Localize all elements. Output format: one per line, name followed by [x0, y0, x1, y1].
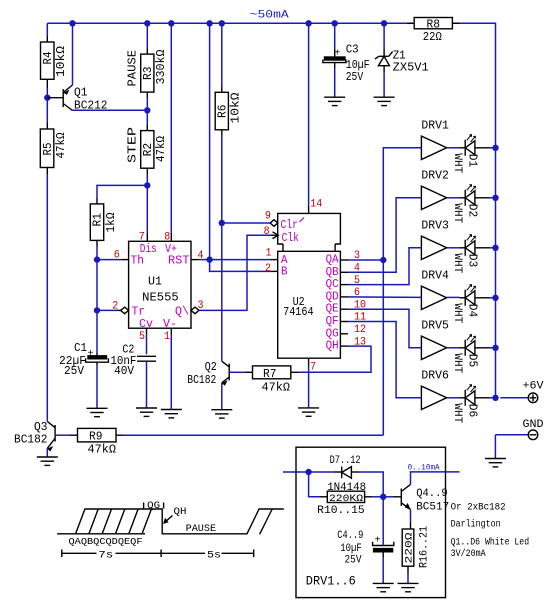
svg-text:47kΩ: 47kΩ: [55, 132, 68, 158]
svg-text:10µF: 10µF: [340, 543, 362, 555]
resistor R16..21 220ohm: [402, 522, 414, 574]
pin stub Tr: [117, 309, 121, 311]
junction dot rail RST: [206, 20, 212, 26]
junction dot rail C3: [332, 20, 338, 26]
svg-text:C4..9: C4..9: [337, 530, 363, 542]
wire QE to DRV5: [348, 309, 421, 348]
wire pin7 to ground: [308, 366, 310, 408]
wire QD to DRV4: [348, 296, 421, 299]
svg-text:QB: QB: [326, 266, 339, 279]
svg-text:NE555: NE555: [142, 291, 179, 305]
svg-text:STEP: STEP: [126, 127, 139, 163]
wire QA node up to DRV1: [383, 148, 421, 260]
svg-text:RST: RST: [168, 255, 190, 268]
svg-text:1: 1: [266, 247, 272, 259]
diode D7..12: [333, 467, 360, 479]
svg-text:D6: D6: [466, 404, 480, 418]
wire R1 top: [97, 185, 147, 198]
LED D3: [460, 235, 490, 256]
svg-text:Q\: Q\: [175, 305, 189, 318]
svg-text:+: +: [334, 49, 340, 60]
wire LED D1 to rail: [490, 147, 496, 149]
svg-text:0..10mA: 0..10mA: [408, 462, 441, 472]
wire Q2 emitter to ground: [221, 383, 223, 410]
driver DRV5: [421, 320, 449, 360]
transistor Q2: [222, 361, 229, 383]
ground Q2: [211, 410, 232, 418]
tick QG left: [143, 503, 145, 509]
LED D2: [460, 185, 490, 206]
transistor Q1: [47, 85, 72, 111]
svg-text:25V: 25V: [64, 365, 84, 378]
wire pin14 rail down: [308, 23, 310, 206]
junction dot rail D5: [492, 345, 498, 351]
Q4 emitter arrow: [405, 503, 411, 510]
wire LED D4 to rail: [490, 297, 496, 299]
wire base node to Q4: [383, 496, 393, 498]
wire diode to base node: [360, 472, 384, 497]
wire node to R2: [146, 110, 148, 124]
subcircuit box DRV1..6: [296, 447, 446, 597]
svg-text:D3: D3: [466, 254, 480, 267]
wire R7 to QH: [299, 346, 371, 372]
svg-text:Th: Th: [131, 255, 145, 268]
wire node to U2 pin B: [210, 260, 271, 272]
svg-text:QH: QH: [174, 506, 187, 518]
svg-text:DRV2: DRV2: [421, 170, 449, 183]
pin stub Th: [122, 259, 129, 261]
wire V+ rail down: [170, 23, 172, 233]
wire rail right of R8: [452, 23, 495, 398]
junction dot input: [305, 469, 311, 475]
svg-text:D5: D5: [466, 354, 480, 368]
pin stub QE: [340, 308, 348, 310]
junction dot rail D3: [492, 245, 498, 251]
pin stub U1 pin7 Dis: [146, 234, 148, 242]
svg-text:Or 2xBc182: Or 2xBc182: [451, 503, 506, 514]
svg-text:WHT: WHT: [451, 303, 463, 323]
junction dot QA: [380, 257, 386, 263]
svg-text:DRV4: DRV4: [421, 270, 449, 283]
pin stub V- pin1: [170, 328, 172, 334]
wire DRV1 output: [447, 147, 460, 149]
wire node to R5: [46, 98, 48, 123]
wire Clr node down to Q2: [221, 223, 223, 361]
clock mark Clk: [273, 232, 279, 239]
wire Q2 base: [229, 371, 245, 373]
driver DRV1: [421, 120, 449, 160]
svg-text:Tr: Tr: [132, 305, 146, 318]
svg-text:2: 2: [112, 301, 118, 313]
svg-text:R9: R9: [89, 431, 103, 444]
capacitor C1: [86, 353, 109, 365]
ground Q3: [37, 457, 58, 465]
wire LED D5 to rail: [490, 347, 496, 349]
ground C2: [136, 408, 157, 416]
junction dot Th: [94, 256, 100, 262]
Q1 emitter arrow: [64, 90, 70, 95]
wire Cv to C2: [146, 334, 148, 354]
pin stub Cv pin5: [146, 328, 148, 334]
pin stub U1 pin8 V+: [170, 234, 172, 242]
svg-text:R10..15: R10..15: [317, 505, 365, 517]
svg-text:1: 1: [164, 331, 170, 343]
ground GND terminal: [485, 459, 506, 467]
svg-text:DRV1: DRV1: [421, 120, 449, 133]
wire node down to U1 Dis pin7: [146, 185, 148, 233]
wire Tr node down to C1: [96, 310, 98, 353]
resistor R7: [253, 366, 299, 379]
svg-text:13: 13: [354, 336, 366, 348]
svg-text:R7: R7: [263, 368, 277, 381]
svg-text:B: B: [281, 266, 288, 279]
LED D5: [460, 335, 490, 356]
svg-text:10kΩ: 10kΩ: [230, 92, 243, 123]
svg-text:Q1..D6 White Led: Q1..D6 White Led: [451, 537, 529, 549]
driver DRV3: [421, 220, 449, 260]
wire Tr: [97, 309, 117, 311]
wire DRV5 output: [447, 347, 460, 349]
wire C3 rail down: [334, 23, 336, 49]
pin stub QF: [340, 321, 348, 323]
wire R4 bottom to node: [46, 88, 48, 98]
wire QF to DRV6: [348, 322, 421, 398]
svg-text:QF: QF: [326, 315, 339, 328]
wire RST to A/B node: [199, 259, 210, 261]
svg-text:DRV5: DRV5: [421, 320, 449, 333]
svg-text:Q1: Q1: [74, 86, 88, 99]
svg-text:U1: U1: [148, 275, 162, 289]
capacitor C4..9: [373, 542, 394, 557]
svg-text:R2: R2: [142, 143, 155, 157]
svg-text:Q4..9: Q4..9: [416, 488, 448, 500]
zener Z1: [375, 48, 393, 73]
svg-text:BC212: BC212: [74, 99, 108, 112]
wire C4 to ground: [382, 557, 384, 583]
junction dot R3/R2/Q1: [144, 107, 150, 113]
driver DRV4: [421, 270, 449, 310]
svg-text:D2: D2: [466, 204, 480, 218]
svg-text:C1: C1: [74, 342, 87, 355]
resistor R8: [407, 18, 460, 29]
pin stub A: [270, 259, 277, 261]
resistor R5: [40, 123, 54, 175]
wire R1 bottom to Th node: [96, 247, 98, 260]
svg-text:D1: D1: [466, 154, 480, 168]
svg-text:9: 9: [265, 211, 271, 223]
wire C2 to ground: [146, 361, 148, 408]
wire input stub into box: [283, 471, 333, 473]
resistor R10..15 220K: [320, 491, 373, 502]
wire Q4 collector up and out: [411, 472, 460, 485]
wire rail down to RST node: [209, 23, 211, 259]
svg-text:74164: 74164: [283, 305, 314, 319]
transistor Q3: [47, 421, 55, 448]
pin 7 stub: [308, 358, 310, 366]
svg-text:R16..21: R16..21: [419, 526, 431, 568]
junction dot rail R3: [144, 20, 150, 26]
svg-text:25V: 25V: [345, 555, 362, 567]
wire Q\ to Clk: [199, 235, 270, 310]
svg-text:+6V: +6V: [523, 381, 544, 393]
svg-text:7: 7: [139, 232, 145, 244]
LED D4: [460, 285, 490, 306]
svg-text:BC182: BC182: [14, 433, 48, 446]
junction dot rail R6: [219, 20, 225, 26]
svg-text:WHT: WHT: [451, 153, 463, 173]
ground C1: [87, 408, 108, 416]
Q2 emitter arrow: [222, 380, 228, 385]
junction dot R4/R5/Q1: [44, 95, 50, 101]
svg-text:C3: C3: [346, 43, 359, 56]
resistor R1: [90, 198, 103, 247]
LED D6: [460, 385, 490, 406]
wire R6 bottom to Clr node: [221, 136, 223, 224]
wire GND terminal down: [494, 435, 496, 459]
terminal GND: [495, 419, 544, 440]
svg-text:R6: R6: [216, 104, 229, 118]
svg-text:7s: 7s: [98, 549, 113, 561]
svg-text:QAQBQCQDQEQF: QAQBQCQDQEQF: [69, 536, 143, 547]
svg-text:R3: R3: [142, 66, 155, 80]
wire C1 to ground: [96, 365, 98, 408]
wire R16 to ground: [407, 574, 409, 584]
wire left rail to R4: [46, 23, 48, 36]
wire Clr node to pin9: [222, 222, 270, 224]
wire 220K to base node: [372, 496, 383, 498]
svg-text:D7..12: D7..12: [330, 455, 361, 467]
pin stub QC: [340, 284, 348, 286]
svg-text:Z1: Z1: [393, 49, 406, 62]
capacitor C3: [323, 49, 346, 68]
svg-text:47kΩ: 47kΩ: [88, 444, 117, 457]
wire C3 to ground: [334, 68, 336, 97]
svg-text:7: 7: [310, 361, 316, 373]
junction dot rail Z1: [381, 20, 387, 26]
waveform baseline left: [57, 509, 284, 534]
svg-text:5: 5: [139, 331, 145, 343]
bubble Q\ pin3: [191, 307, 199, 314]
svg-text:12: 12: [354, 324, 366, 336]
dimension line 7s 5s: [62, 550, 254, 558]
svg-text:GND: GND: [523, 419, 544, 431]
svg-text:Darlington: Darlington: [451, 519, 501, 531]
ground C4: [373, 583, 394, 591]
wire DRV3 output: [447, 247, 460, 249]
svg-text:Clk: Clk: [282, 232, 300, 245]
wire rail to R3: [146, 23, 148, 48]
wire node to U2 pin A: [210, 259, 271, 261]
pin stub Clk: [270, 234, 277, 236]
svg-text:10kΩ: 10kΩ: [55, 46, 68, 77]
junction dot base node: [380, 494, 386, 500]
svg-text:WHT: WHT: [451, 353, 463, 373]
junction dot rail D4: [492, 295, 498, 301]
tick Clr apostrophe: [300, 218, 305, 223]
svg-text:3V/20mA: 3V/20mA: [451, 548, 486, 560]
svg-text:25V: 25V: [346, 71, 364, 84]
svg-text:R5: R5: [42, 142, 55, 155]
Q3 emitter arrow: [47, 446, 53, 451]
resistor R9: [70, 428, 124, 442]
wire LED D6 to rail: [490, 397, 496, 399]
junction dot rail D1: [492, 145, 498, 151]
pin stub QG nc: [340, 333, 348, 335]
svg-text:5s: 5s: [207, 549, 221, 561]
driver DRV2: [421, 170, 449, 210]
svg-text:6: 6: [114, 250, 120, 262]
svg-text:+: +: [375, 536, 381, 547]
wire V- to ground: [170, 334, 172, 410]
resistor R4: [41, 36, 55, 92]
junction dot rail V+: [168, 20, 174, 26]
svg-text:40V: 40V: [114, 365, 134, 378]
junction dot Q1 rail: [69, 20, 75, 26]
transistor Q4..9: [394, 484, 411, 509]
wire QC to DRV3: [348, 248, 421, 285]
svg-text:R4: R4: [42, 51, 55, 64]
op-amp U1 box NE555: [129, 241, 191, 328]
svg-text:V-: V-: [163, 318, 177, 331]
wire Z1 to ground: [383, 73, 385, 97]
svg-text:WHT: WHT: [451, 253, 463, 273]
svg-text:QH: QH: [326, 340, 339, 353]
wire DRV6 output: [447, 397, 460, 399]
svg-text:PAUSE: PAUSE: [126, 50, 139, 87]
svg-text:8: 8: [164, 232, 170, 244]
svg-text:QG: QG: [326, 327, 339, 340]
wire input down to 220K: [309, 472, 320, 497]
driver DRV6: [421, 370, 449, 410]
svg-text:47kΩ: 47kΩ: [155, 136, 168, 162]
svg-text:2: 2: [265, 263, 271, 275]
svg-text:D4: D4: [466, 304, 480, 318]
junction dot Clr: [219, 220, 225, 226]
wire R5 bottom long left rail down to Q3: [46, 174, 48, 421]
svg-text:QC: QC: [326, 278, 339, 291]
ground V-: [161, 410, 182, 418]
wire Q4 emitter down to R16: [410, 510, 412, 522]
svg-text:DRV6: DRV6: [421, 370, 449, 383]
svg-text:+: +: [88, 349, 94, 360]
wire Q1 emitter to rail: [72, 23, 74, 85]
svg-text:QE: QE: [326, 303, 339, 316]
junction dot Tr: [94, 307, 100, 313]
arrow QH: [163, 516, 173, 525]
terminal +6V: [500, 381, 544, 403]
svg-text:WHT: WHT: [451, 203, 463, 223]
wire Q3 emitter to ground: [46, 448, 48, 457]
resistor R3: [141, 49, 154, 99]
pin stub 14: [308, 206, 310, 213]
wire QB to DRV2: [348, 198, 421, 272]
wire QA to node: [348, 259, 383, 261]
svg-text:DRV3: DRV3: [421, 220, 449, 233]
svg-text:1kΩ: 1kΩ: [105, 212, 118, 232]
tick QG right: [163, 503, 165, 509]
svg-text:BC182: BC182: [187, 374, 216, 387]
svg-text:QD: QD: [326, 290, 339, 303]
wire Z1 rail down: [383, 23, 385, 48]
svg-text:8: 8: [264, 226, 270, 238]
ground Z1: [374, 97, 395, 105]
svg-text:R1: R1: [92, 213, 105, 227]
svg-text:Q2: Q2: [205, 361, 217, 374]
wire Q1 collector to R3 column: [73, 109, 148, 111]
resistor R2: [141, 125, 154, 175]
wire R9 to QA node: [124, 434, 384, 436]
junction dot rail D2: [492, 195, 498, 201]
ground R16: [398, 583, 419, 591]
svg-text:ZX5V1: ZX5V1: [393, 61, 429, 74]
svg-text:Clr: Clr: [281, 219, 299, 232]
svg-text:Q3: Q3: [34, 421, 48, 434]
wire R3 bottom: [146, 98, 148, 110]
pin stub QB: [340, 271, 348, 273]
wire Th node down to Tr node: [96, 260, 98, 311]
wire DRV4 output: [447, 296, 460, 298]
svg-text:47kΩ: 47kΩ: [262, 381, 291, 394]
junction dot rail pin14: [305, 20, 311, 26]
svg-text:220KΩ: 220KΩ: [329, 493, 363, 505]
capacitor C2: [137, 356, 156, 361]
wire Q3 base to R9: [55, 434, 70, 436]
wire QA node down to R9 net: [382, 260, 384, 435]
pin stub QA: [340, 259, 348, 261]
svg-text:DRV1..6: DRV1..6: [306, 574, 356, 589]
svg-text:QA: QA: [326, 254, 339, 267]
resistor R6: [215, 87, 228, 136]
pin stub RST pin4: [191, 259, 199, 261]
pin stub B: [270, 270, 277, 272]
wire Th: [97, 259, 122, 261]
wire LED D3 to rail: [490, 247, 496, 249]
LED D1: [460, 135, 490, 156]
svg-text:PAUSE: PAUSE: [186, 523, 217, 535]
pin stub QD: [340, 296, 348, 298]
svg-text:WHT: WHT: [451, 403, 463, 423]
bubble Tr pin2: [121, 307, 129, 314]
svg-text:14: 14: [310, 198, 322, 210]
junction dot R2/R1/Dis: [144, 182, 150, 188]
wire top +V rail: [47, 22, 414, 24]
svg-text:330kΩ: 330kΩ: [155, 49, 168, 84]
shift register U2 74164 outline: [278, 213, 341, 358]
junction dot rail D6: [492, 395, 498, 401]
wire LED D2 to rail: [490, 197, 496, 199]
svg-text:~50mA: ~50mA: [250, 10, 289, 22]
svg-text:BC517: BC517: [416, 501, 449, 513]
svg-text:22Ω: 22Ω: [423, 31, 442, 44]
svg-text:R8: R8: [427, 18, 441, 31]
pin stub R7 left: [245, 371, 253, 373]
pin stub QH: [340, 345, 348, 347]
wire R6 rail down: [221, 23, 223, 86]
ground C3: [324, 97, 345, 105]
svg-text:220Ω: 220Ω: [404, 533, 416, 564]
wire DRV2 output: [447, 197, 460, 199]
wire base node down to C4: [382, 497, 384, 545]
junction dot RST/A/B: [206, 256, 212, 262]
svg-text:QG: QG: [147, 501, 160, 512]
wire R2 bottom to node: [146, 174, 148, 185]
ground U2 pin7: [298, 408, 319, 416]
bubble Clr pin9: [270, 220, 278, 227]
